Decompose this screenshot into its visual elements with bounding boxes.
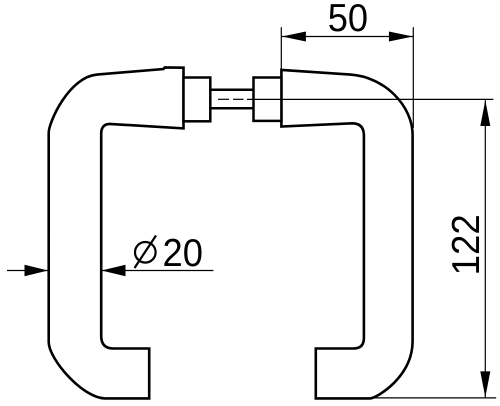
svg-text:122: 122 — [445, 214, 488, 275]
svg-text:20: 20 — [163, 232, 203, 275]
svg-text:50: 50 — [328, 0, 368, 40]
